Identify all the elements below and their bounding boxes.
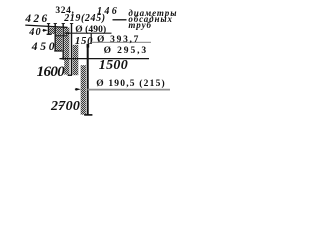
casing 324 top cap [54, 23, 57, 25]
leader O490 arrow [64, 32, 69, 35]
label O393,7 [97, 35, 140, 45]
casing 426 top cap [47, 23, 50, 25]
casing 146 shoe [68, 74, 72, 76]
label 1600 [37, 64, 65, 81]
leader O190 [88, 89, 171, 91]
casing 219(245) [62, 24, 64, 59]
wall top junction [87, 44, 90, 48]
label 426 [25, 13, 49, 25]
bottom shoe [84, 114, 92, 116]
label 324 [55, 6, 74, 16]
crossbar of 7 in 2700 [59, 104, 64, 106]
label O190,5(215) [96, 79, 166, 89]
label 40 [29, 27, 42, 38]
borehole wall [87, 44, 89, 115]
casing 324 shoe line [54, 50, 62, 52]
label 146 [97, 6, 119, 17]
casing 146 top cap [70, 23, 73, 25]
cement hatch 324/219 [56, 28, 62, 51]
dim line 150 [90, 33, 92, 44]
cement hatch mid [73, 45, 79, 75]
annulus arrow [76, 88, 81, 91]
dash to note [113, 19, 127, 21]
label 150 [75, 35, 93, 47]
label O295,3 [104, 46, 148, 56]
leader O490 [65, 32, 112, 34]
label 2700 [51, 99, 80, 115]
label 1500 [99, 58, 128, 74]
note диаметры обсадных труб [128, 10, 177, 28]
depth-40 line [55, 35, 67, 37]
label O(490) [75, 25, 106, 35]
casing 426 (направление) [48, 24, 50, 35]
casing 219 top cap [62, 23, 65, 25]
casing 426 shoe [47, 33, 52, 35]
label 450 [32, 41, 58, 53]
leader O295 arrow [59, 57, 64, 60]
cement hatch 219/146 [64, 28, 69, 75]
ground line [25, 25, 67, 27]
cement hatch deep [81, 65, 86, 114]
leader O295 [60, 58, 150, 60]
casing 146 (эксплуатационная) [71, 24, 73, 76]
cement hatch 426/324 [49, 28, 54, 34]
label 219(245) [64, 13, 105, 24]
depth 40 arrow [43, 29, 48, 32]
annulus arrow tail [75, 88, 78, 90]
leader O393 (light) [91, 41, 151, 43]
casing 324 (кондуктор) [54, 24, 56, 51]
